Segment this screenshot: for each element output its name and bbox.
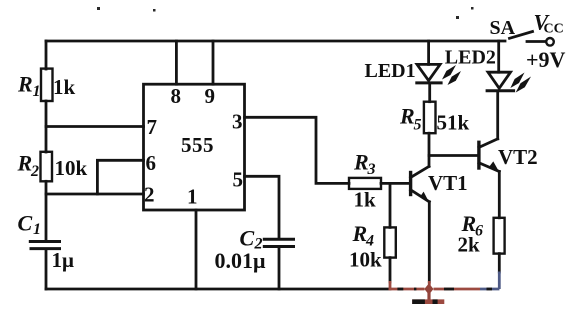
svg-text:R: R — [353, 150, 369, 175]
wire pin 1 — [195, 210, 198, 289]
svg-text:2k: 2k — [458, 233, 481, 257]
svg-text:5: 5 — [233, 168, 244, 192]
wire pin6 link — [97, 160, 143, 194]
wire left rail upper — [45, 41, 48, 69]
svg-text:LED1: LED1 — [365, 60, 416, 82]
wire R1 bottom to R2 top — [45, 101, 48, 152]
svg-text:8: 8 — [171, 84, 182, 108]
svg-text:C: C — [18, 211, 33, 236]
resistor R4 — [384, 227, 396, 257]
svg-text:R: R — [17, 72, 33, 97]
svg-text:51k: 51k — [437, 111, 470, 135]
svg-text:SA: SA — [490, 17, 516, 39]
LED1 emission arrows — [442, 65, 461, 85]
svg-text:1μ: 1μ — [52, 248, 75, 272]
wire R3 to VT1 base — [381, 182, 410, 185]
wire R2 bottom to C1 — [45, 181, 48, 240]
capacitor C2 — [264, 238, 293, 241]
svg-text:10k: 10k — [349, 248, 382, 272]
transistor Q1 VT1 — [409, 173, 412, 195]
svg-text:VT1: VT1 — [428, 171, 468, 195]
svg-text:7: 7 — [147, 115, 158, 139]
right side labels — [349, 9, 566, 271]
capacitor C1 — [30, 240, 59, 243]
wire VT1 emitter red stub — [428, 281, 431, 289]
svg-text:1k: 1k — [53, 75, 76, 99]
wire R6 bottom down — [498, 254, 501, 272]
wire bottom rail — [46, 288, 390, 291]
LED2 emission arrows — [510, 73, 531, 93]
555 labels — [144, 84, 243, 209]
resistor R1 — [41, 69, 53, 101]
svg-text:1: 1 — [187, 185, 198, 209]
wire C2 bottom to rail — [278, 248, 281, 290]
svg-text:1: 1 — [33, 221, 41, 238]
wire top rail — [46, 40, 505, 43]
switch SA lever — [510, 32, 533, 39]
LED D1 LED1 — [417, 64, 440, 80]
svg-text:6: 6 — [146, 151, 157, 175]
wire bottom rail red segment — [389, 272, 500, 290]
wire R5 top to LED1 — [428, 84, 431, 102]
svg-text:VT2: VT2 — [498, 145, 538, 169]
wire LED1 anode to top rail — [427, 41, 430, 64]
svg-text:3: 3 — [232, 110, 243, 134]
wire R6 navy segment — [498, 272, 501, 290]
op-amp U1 555 box — [144, 84, 245, 210]
resistor R3 — [349, 178, 381, 189]
wire VT2 collector to LED2 — [496, 92, 499, 138]
wire VT1 collector to VT2 base — [429, 154, 478, 157]
wire R4 bottom to rail — [389, 258, 392, 282]
wire pin 5 to C2 — [245, 176, 280, 238]
wire pin 3 to R3 — [245, 117, 350, 183]
svg-text:C: C — [240, 226, 255, 251]
node junction dot — [424, 283, 433, 294]
svg-text:1: 1 — [33, 83, 41, 100]
wire pin 8 — [175, 41, 178, 84]
wire VT1 collector up to R5 — [428, 133, 431, 166]
ground — [412, 289, 444, 302]
switch SA contact circle — [546, 38, 554, 46]
transistor Q2 VT2 — [477, 142, 480, 168]
resistor R2 — [41, 152, 53, 182]
svg-text:2: 2 — [144, 183, 155, 207]
svg-text:555: 555 — [181, 133, 214, 157]
LED D2 LED2 — [488, 72, 511, 88]
paper specks — [97, 7, 474, 19]
wire C1 bottom to rail — [45, 250, 48, 290]
svg-text:+9V: +9V — [526, 47, 566, 72]
svg-text:5: 5 — [414, 117, 422, 134]
wire R4 branch — [389, 183, 392, 227]
wire R4 red stub — [389, 281, 392, 289]
svg-text:0.01μ: 0.01μ — [215, 248, 267, 273]
resistor R6 — [494, 218, 505, 254]
svg-text:9: 9 — [205, 84, 216, 108]
svg-text:3: 3 — [367, 161, 376, 178]
svg-text:R: R — [399, 104, 415, 129]
svg-text:R: R — [17, 151, 33, 176]
svg-text:1k: 1k — [354, 188, 377, 212]
wire pin 9 — [212, 41, 215, 84]
svg-text:CC: CC — [544, 22, 564, 37]
wire node pin7 — [46, 125, 144, 128]
resistor R5 — [424, 102, 436, 134]
wire LED2 anode to rail — [497, 41, 500, 72]
svg-text:R: R — [352, 221, 368, 246]
svg-text:LED2: LED2 — [445, 47, 496, 69]
labels left column — [17, 72, 267, 274]
svg-text:10k: 10k — [55, 156, 88, 180]
switch SA contact wire — [527, 40, 545, 43]
wire node pin2 — [46, 193, 144, 196]
svg-text:2: 2 — [30, 163, 39, 180]
